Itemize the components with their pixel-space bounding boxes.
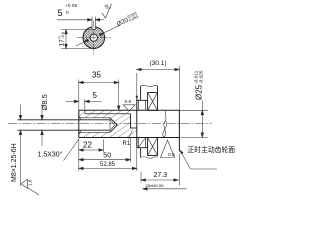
svg-text:5: 5 — [58, 8, 63, 18]
drill cone — [110, 118, 117, 133]
dimension 27.3 — [141, 154, 179, 186]
gear rim broken top edge (wavy) — [141, 85, 158, 86]
keyway floor line — [85, 113, 131, 115]
svg-text:Ø25: Ø25 — [195, 84, 204, 100]
white threaded hole region — [79, 118, 117, 133]
roughness 0.8 symbol (under gear face) — [161, 140, 175, 158]
centerline vertical — [93, 21, 95, 56]
svg-text:1.5X30°: 1.5X30° — [38, 151, 63, 159]
centerline horizontal — [77, 37, 111, 39]
gear rim left face — [140, 86, 142, 100]
hole thread end line — [109, 118, 111, 133]
svg-text:-0.6: -0.6 — [61, 32, 65, 39]
dimension 52.85 — [79, 167, 137, 170]
gear rim broken bottom edge (wavy) — [141, 157, 158, 159]
svg-text:16: 16 — [104, 3, 109, 8]
roughness 1.6 symbol (rotated, bottom-left) — [21, 179, 39, 195]
dimension Ø25 -0.011/-0.025 (right) — [201, 101, 204, 138]
dimension 22 — [79, 140, 104, 172]
gear hub bottom line — [137, 147, 148, 149]
svg-text:27.3: 27.3 — [154, 172, 168, 179]
dimension (30.1) — [137, 66, 180, 110]
svg-text:22: 22 — [83, 141, 92, 150]
leader + label 正时主动齿轮面 — [180, 150, 217, 169]
thread hole major line bottom — [79, 131, 110, 133]
surface finish mark (1.6 check) top — [102, 4, 112, 18]
gear rim left edge below hub — [140, 148, 142, 158]
rod / thread minor line top — [18, 119, 111, 121]
svg-text:5: 5 — [93, 91, 98, 100]
svg-text:M8×1.25-6H: M8×1.25-6H — [11, 143, 18, 182]
dimension Ø20 -0.020/-0.053 (diagonal diameter leader) — [76, 25, 120, 46]
svg-text:+0.05: +0.05 — [65, 3, 77, 9]
roughness 0.6 symbol (on keyway) — [123, 105, 135, 111]
key (bottom) — [137, 138, 139, 148]
drill cone inner — [110, 120, 115, 130]
dimension 5 +0.05/0 (keyway width) — [57, 19, 104, 22]
rod / thread minor line bottom — [18, 129, 111, 131]
dimension 5 (keyway start) — [66, 99, 102, 114]
gear hub left face / 52.85 extension line — [136, 99, 138, 148]
main centerline — [8, 123, 212, 125]
shaft cross-section outer circle with cross-hatch — [77, 17, 111, 56]
white relief groove — [131, 110, 137, 128]
svg-text:0: 0 — [66, 10, 69, 16]
svg-text:28±M0.5S: 28±M0.5S — [146, 183, 165, 188]
shaft bottom edge — [79, 137, 180, 139]
gear rim right edge above box — [157, 86, 159, 93]
gear hub top line — [137, 99, 148, 101]
shaft top edge — [79, 109, 180, 111]
svg-text:50: 50 — [103, 153, 111, 160]
bore inner circle — [90, 34, 97, 41]
svg-text:17: 17 — [59, 39, 66, 47]
dimension 50 — [79, 138, 131, 163]
relief groove outline — [130, 114, 132, 128]
svg-text:(30.1): (30.1) — [150, 60, 167, 67]
conventional break (S-squiggle) on shaft — [164, 111, 166, 138]
thread hole major line top — [79, 117, 110, 119]
small dimension below (tiny note) — [143, 188, 187, 191]
svg-text:0.8: 0.8 — [168, 152, 175, 158]
gear section box with cross (bottom) — [148, 138, 158, 156]
svg-text:52.85: 52.85 — [100, 162, 116, 168]
svg-text:R1: R1 — [123, 141, 131, 147]
keyway slot — [92, 17, 95, 30]
dimension verticals on thin rod (Ø8.5 / M8 leaders) — [19, 104, 43, 186]
key (top) — [137, 100, 139, 110]
svg-text:Ø8.5: Ø8.5 — [40, 94, 49, 110]
right end face — [178, 110, 180, 151]
entry chamfer 1.5x30 — [79, 116, 82, 120]
svg-text:0.6: 0.6 — [125, 99, 132, 105]
top extension line to Ø25 dim — [179, 109, 208, 111]
svg-text:正时主动齿轮面: 正时主动齿轮面 — [188, 145, 236, 154]
left end face — [78, 110, 80, 137]
gear section box with cross (top) — [148, 93, 158, 111]
dimension 35 — [79, 80, 120, 111]
svg-text:35: 35 — [92, 71, 101, 80]
bottom extension line to Ø25 dim — [179, 137, 208, 139]
dimension 17 -0.6 (keyway depth, left of circle) — [61, 30, 96, 49]
svg-text:-0.025: -0.025 — [198, 70, 204, 84]
hatched body of Ø20 section — [79, 110, 137, 137]
svg-text:1.6: 1.6 — [28, 179, 33, 186]
